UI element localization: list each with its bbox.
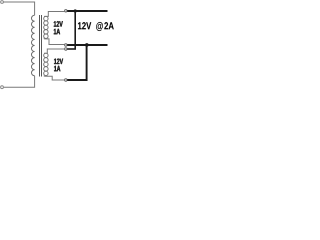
terminal S2 top <box>65 48 67 50</box>
wire output minus rail <box>67 44 107 46</box>
wire S2 top to link <box>67 48 76 50</box>
junction dot bottom <box>85 43 89 47</box>
wire S1 top <box>44 12 64 17</box>
primary winding P1 <box>31 15 34 76</box>
wire bottom-left <box>3 76 34 88</box>
wire top-left <box>3 2 34 15</box>
terminal BL <box>1 86 4 89</box>
wire S2 bottom <box>44 76 64 80</box>
junction dot top <box>74 9 77 12</box>
label S2 1A <box>54 66 60 71</box>
label S2 12V <box>54 59 63 64</box>
wire S1 bottom <box>44 38 64 44</box>
secondary winding S2 <box>44 53 48 75</box>
terminal TL <box>1 1 4 4</box>
wire bottom link bar <box>67 45 87 81</box>
label S1 12V <box>54 21 63 26</box>
wire S2 top <box>44 49 64 53</box>
label output 12V @ 2A <box>78 22 114 31</box>
label S1 1A <box>54 29 60 34</box>
terminal S2 bottom <box>65 79 67 81</box>
terminal S1 top <box>65 10 67 12</box>
wire output plus rail <box>67 10 107 12</box>
terminal S1 bottom <box>65 44 67 46</box>
core line left <box>39 15 41 77</box>
wire parallel link vertical <box>74 11 76 49</box>
secondary winding S1 <box>44 16 48 38</box>
core line right <box>41 15 43 77</box>
